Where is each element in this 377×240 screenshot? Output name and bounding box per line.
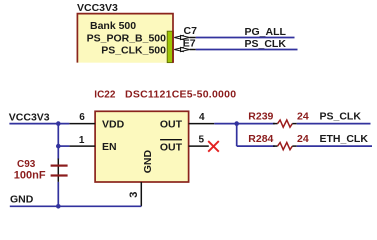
svg-text:VCC3V3: VCC3V3 [9, 111, 50, 123]
pin 6 [69, 123, 95, 125]
svg-text:PG_ALL: PG_ALL [245, 26, 287, 38]
junction at OUT branch [234, 121, 239, 126]
wire EN stub [58, 145, 69, 147]
svg-text:5: 5 [199, 135, 205, 146]
svg-text:3: 3 [128, 192, 140, 198]
no-connect X on pin 5 [208, 141, 219, 152]
svg-text:24: 24 [297, 133, 309, 145]
svg-text:PS_CLK: PS_CLK [245, 38, 287, 50]
svg-text:OUT: OUT [160, 141, 183, 153]
junction at VDD branch [56, 121, 61, 126]
wire VCC3V3 to VDD [9, 123, 69, 125]
svg-text:E7: E7 [183, 38, 196, 50]
wire GND rail [10, 205, 142, 207]
svg-text:EN: EN [102, 141, 117, 153]
pin E7 stub [190, 49, 196, 51]
svg-text:DSC1121CE5-50.0000: DSC1121CE5-50.0000 [125, 88, 236, 100]
pin C7 stub [190, 37, 196, 39]
svg-text:4: 4 [199, 112, 205, 123]
svg-text:R284: R284 [248, 133, 273, 145]
resistor R284 [273, 145, 278, 147]
wire OUT net [214, 123, 274, 125]
svg-text:24: 24 [297, 110, 309, 122]
sheet entry strip [167, 31, 172, 62]
svg-text:C93: C93 [17, 159, 36, 170]
svg-text:GND: GND [10, 194, 34, 206]
svg-text:100nF: 100nF [14, 170, 46, 182]
wire down to EN [57, 124, 59, 160]
junction at GND [56, 204, 61, 209]
svg-text:OUT: OUT [160, 118, 183, 130]
svg-text:VCC3V3: VCC3V3 [77, 2, 118, 14]
pin 1 [69, 145, 95, 147]
pin E7 bidirectional arrow [174, 47, 189, 51]
svg-text:R239: R239 [248, 110, 273, 122]
wire down to R284 branch [236, 124, 238, 147]
wire R239 to PS_CLK [297, 123, 371, 125]
sheet symbol Bank 500 [77, 14, 173, 63]
svg-text:PS_CLK: PS_CLK [320, 110, 362, 122]
wire to R284 [237, 145, 275, 147]
IC IC22 body [95, 111, 189, 182]
svg-text:PS_CLK_500: PS_CLK_500 [101, 45, 166, 57]
wire R284 to ETH_CLK [297, 145, 372, 147]
wire PG_ALL [196, 37, 295, 39]
svg-text:PS_POR_B_500: PS_POR_B_500 [87, 33, 167, 45]
wire C93 to GND [57, 182, 59, 206]
resistor R239 [273, 123, 278, 125]
svg-text:C7: C7 [184, 25, 198, 37]
pin 4 [189, 123, 215, 125]
svg-text:Bank 500: Bank 500 [90, 20, 136, 32]
svg-text:1: 1 [79, 135, 85, 146]
svg-text:VDD: VDD [102, 118, 125, 130]
wire PS_CLK (top) [196, 49, 298, 51]
svg-text:ETH_CLK: ETH_CLK [320, 133, 369, 145]
pin 5 [189, 145, 209, 147]
OUT-bar overline [160, 139, 182, 141]
svg-text:6: 6 [79, 112, 85, 123]
capacitor C93 [57, 159, 59, 182]
svg-text:IC22: IC22 [94, 89, 116, 100]
pin 3 [140, 182, 142, 206]
pin C7 bidirectional arrow [174, 35, 189, 39]
svg-text:GND: GND [142, 150, 154, 174]
junction at EN branch [56, 144, 61, 149]
